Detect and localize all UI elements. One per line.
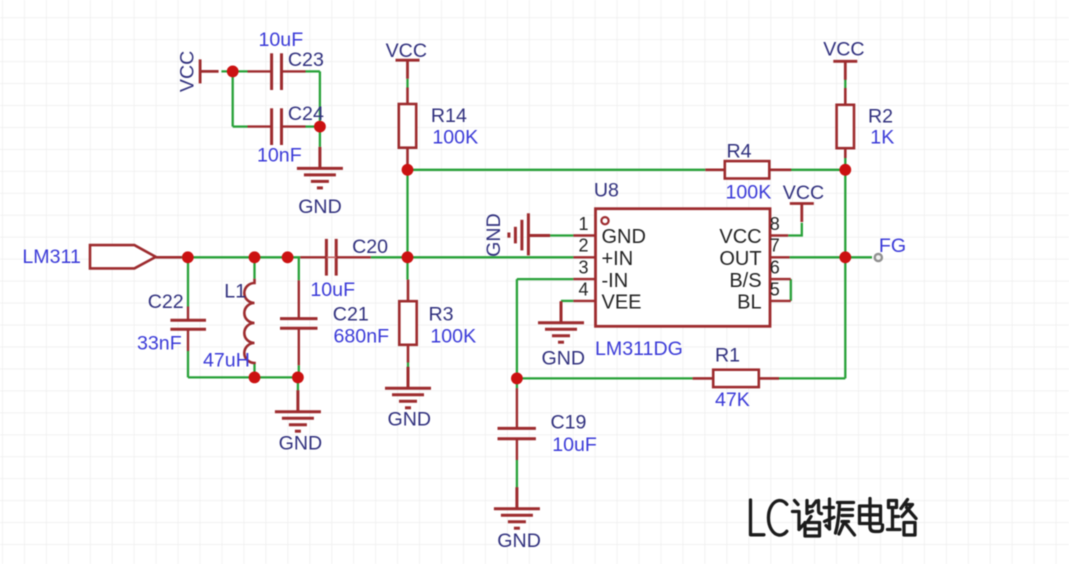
svg-text:33nF: 33nF xyxy=(137,333,182,355)
svg-text:C24: C24 xyxy=(288,103,324,125)
svg-text:VCC: VCC xyxy=(783,182,824,204)
svg-text:-IN: -IN xyxy=(602,270,629,292)
svg-text:FG: FG xyxy=(879,235,906,257)
svg-text:R2: R2 xyxy=(868,106,893,128)
svg-text:R4: R4 xyxy=(727,140,752,162)
svg-text:680nF: 680nF xyxy=(334,325,390,347)
svg-text:U8: U8 xyxy=(594,180,619,202)
svg-text:+IN: +IN xyxy=(602,248,634,270)
svg-text:10uF: 10uF xyxy=(310,279,355,301)
svg-text:VCC: VCC xyxy=(177,51,199,92)
svg-text:C21: C21 xyxy=(333,303,369,325)
svg-text:1: 1 xyxy=(578,214,588,234)
svg-text:GND: GND xyxy=(388,409,432,431)
svg-text:LM311DG: LM311DG xyxy=(595,338,683,360)
svg-text:GND: GND xyxy=(298,196,342,218)
svg-text:VCC: VCC xyxy=(386,40,427,62)
svg-text:100K: 100K xyxy=(430,325,476,347)
svg-text:47uH: 47uH xyxy=(203,350,250,372)
svg-text:10nF: 10nF xyxy=(257,144,302,166)
svg-text:VCC: VCC xyxy=(719,226,761,248)
svg-text:VEE: VEE xyxy=(602,292,642,314)
svg-text:LM311: LM311 xyxy=(22,246,80,268)
svg-text:C20: C20 xyxy=(352,236,388,258)
svg-text:GND: GND xyxy=(542,348,586,370)
svg-text:3: 3 xyxy=(578,258,588,278)
svg-text:10uF: 10uF xyxy=(259,29,304,51)
svg-text:R3: R3 xyxy=(429,303,454,325)
svg-text:GND: GND xyxy=(602,226,646,248)
svg-text:GND: GND xyxy=(279,433,323,455)
svg-text:C22: C22 xyxy=(148,291,184,313)
svg-text:GND: GND xyxy=(497,530,541,552)
svg-text:OUT: OUT xyxy=(719,248,761,270)
svg-text:4: 4 xyxy=(578,279,588,299)
svg-text:B/S: B/S xyxy=(729,270,761,292)
svg-text:100K: 100K xyxy=(432,126,478,148)
svg-text:L1: L1 xyxy=(224,281,246,303)
svg-text:100K: 100K xyxy=(726,181,772,203)
svg-text:BL: BL xyxy=(737,292,761,314)
svg-text:1K: 1K xyxy=(870,126,894,148)
svg-text:VCC: VCC xyxy=(823,38,864,60)
svg-text:10uF: 10uF xyxy=(552,434,597,456)
svg-text:C19: C19 xyxy=(551,412,587,434)
svg-text:47K: 47K xyxy=(715,389,750,411)
svg-text:8: 8 xyxy=(770,214,780,234)
svg-text:C23: C23 xyxy=(288,49,324,71)
svg-text:5: 5 xyxy=(770,279,780,299)
svg-text:2: 2 xyxy=(578,236,588,256)
svg-text:R14: R14 xyxy=(431,105,467,127)
svg-text:GND: GND xyxy=(483,213,505,257)
svg-text:6: 6 xyxy=(770,258,780,278)
svg-text:R1: R1 xyxy=(715,344,740,366)
svg-text:7: 7 xyxy=(770,236,780,256)
